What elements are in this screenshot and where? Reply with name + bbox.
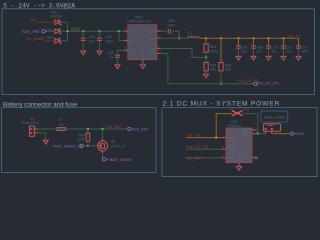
svg-text:5 - 24V --> 3.6V@2A: 5 - 24V --> 3.6V@2A bbox=[3, 2, 75, 9]
svg-text:Q8: Q8 bbox=[111, 139, 116, 143]
svg-text:JP2: JP2 bbox=[229, 108, 234, 111]
svg-text:PR1: PR1 bbox=[228, 148, 234, 152]
svg-text:VBAT_MEAS_EN: VBAT_MEAS_EN bbox=[53, 144, 83, 148]
svg-text:100n: 100n bbox=[105, 39, 113, 43]
svg-text:VBAT_MEAS: VBAT_MEAS bbox=[108, 157, 132, 162]
svg-text:22u: 22u bbox=[271, 49, 277, 53]
svg-text:VIN: VIN bbox=[130, 30, 135, 34]
svg-text:3v6_BAT: 3v6_BAT bbox=[133, 127, 150, 132]
svg-text:J4: J4 bbox=[30, 117, 34, 121]
svg-text:5V_USBD: 5V_USBD bbox=[27, 36, 45, 41]
svg-text:3v6_DC: 3v6_DC bbox=[287, 34, 302, 39]
svg-text:LMR57030ADDA: LMR57030ADDA bbox=[127, 20, 152, 24]
svg-text:3v6_DC: 3v6_DC bbox=[186, 132, 201, 137]
svg-text:DNP: DNP bbox=[244, 108, 249, 111]
svg-text:22u: 22u bbox=[256, 49, 262, 53]
svg-text:20V/4.2A: 20V/4.2A bbox=[111, 144, 126, 148]
svg-text:D67: D67 bbox=[47, 28, 54, 32]
svg-text:GND: GND bbox=[141, 50, 145, 58]
svg-text:22u: 22u bbox=[286, 49, 292, 53]
svg-text:6.8u: 6.8u bbox=[187, 35, 194, 39]
svg-text:30V/3A: 30V/3A bbox=[50, 15, 62, 19]
svg-text:3v6_BAT: 3v6_BAT bbox=[106, 124, 123, 129]
svg-text:VIN2: VIN2 bbox=[228, 156, 235, 160]
svg-text:5V: 5V bbox=[31, 17, 36, 22]
svg-text:10u: 10u bbox=[89, 39, 95, 43]
svg-text:100k: 100k bbox=[77, 137, 85, 141]
svg-text:3.6V: 3.6V bbox=[296, 131, 305, 136]
svg-text:GND: GND bbox=[237, 154, 241, 160]
svg-text:VCC: VCC bbox=[71, 26, 80, 31]
svg-text:F7: F7 bbox=[59, 118, 63, 122]
svg-text:BOOT: BOOT bbox=[146, 30, 155, 34]
svg-text:AUX_VIN: AUX_VIN bbox=[21, 29, 39, 34]
svg-text:20k: 20k bbox=[210, 68, 216, 72]
svg-text:1u: 1u bbox=[109, 55, 113, 59]
svg-text:SW: SW bbox=[150, 37, 155, 41]
svg-text:EN: EN bbox=[130, 39, 134, 43]
svg-text:Power switch: Power switch bbox=[264, 116, 285, 120]
svg-text:22u: 22u bbox=[241, 49, 247, 53]
svg-text:B2B-XH-A: B2B-XH-A bbox=[22, 121, 39, 125]
svg-text:1A: 1A bbox=[59, 123, 64, 127]
svg-text:10k: 10k bbox=[225, 68, 231, 72]
svg-text:2:1 DC MUX - SYSTEM POWER: 2:1 DC MUX - SYSTEM POWER bbox=[163, 101, 281, 108]
svg-text:VIN1: VIN1 bbox=[228, 136, 235, 140]
svg-text:FB: FB bbox=[151, 47, 155, 51]
svg-text:D68: D68 bbox=[47, 35, 54, 39]
svg-text:ST: ST bbox=[246, 156, 250, 160]
svg-text:Battery connector and fuse: Battery connector and fuse bbox=[3, 101, 78, 108]
svg-text:100n: 100n bbox=[301, 49, 309, 53]
svg-text:VOUT: VOUT bbox=[241, 132, 250, 136]
svg-text:100k: 100k bbox=[210, 49, 218, 53]
svg-text:TPS2116: TPS2116 bbox=[227, 124, 241, 128]
svg-text:3v6_DC_PG: 3v6_DC_PG bbox=[186, 144, 208, 149]
svg-text:VCC: VCC bbox=[130, 49, 137, 53]
svg-text:3v6_BAT: 3v6_BAT bbox=[186, 155, 203, 160]
svg-text:PG: PG bbox=[151, 52, 156, 56]
svg-text:3v6_DC_PG: 3v6_DC_PG bbox=[257, 81, 279, 86]
svg-text:C66: C66 bbox=[168, 19, 175, 23]
svg-text:100n: 100n bbox=[167, 23, 175, 27]
